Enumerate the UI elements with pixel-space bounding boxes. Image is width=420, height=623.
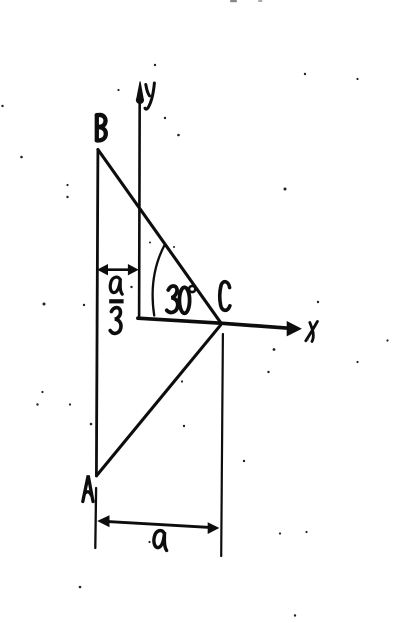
line C to A	[97, 325, 221, 475]
label a (numerator of a/3)	[110, 277, 122, 294]
fraction bar of a/3	[109, 299, 123, 303]
label A	[83, 476, 93, 502]
x-axis (base line through C)	[138, 318, 289, 328]
label 3 (denominator of a/3)	[110, 308, 121, 334]
label a (bottom)	[154, 531, 167, 551]
label C	[220, 282, 230, 311]
label 30deg	[167, 286, 195, 313]
label x	[306, 322, 318, 342]
dimension arrow a/3 (between left line and y-axis)	[98, 265, 137, 275]
y-axis arrowhead	[136, 82, 143, 104]
label y	[145, 83, 154, 109]
bottom dimension arrow a	[98, 516, 218, 533]
label B	[97, 115, 106, 141]
y-axis	[138, 99, 141, 318]
left vertical line B to A	[96, 150, 98, 477]
x-axis arrowhead	[287, 322, 301, 336]
right vertical line below C	[221, 334, 223, 556]
30 degree arc	[153, 245, 165, 316]
left extension line below A	[94, 488, 97, 548]
line B to C	[98, 150, 221, 323]
